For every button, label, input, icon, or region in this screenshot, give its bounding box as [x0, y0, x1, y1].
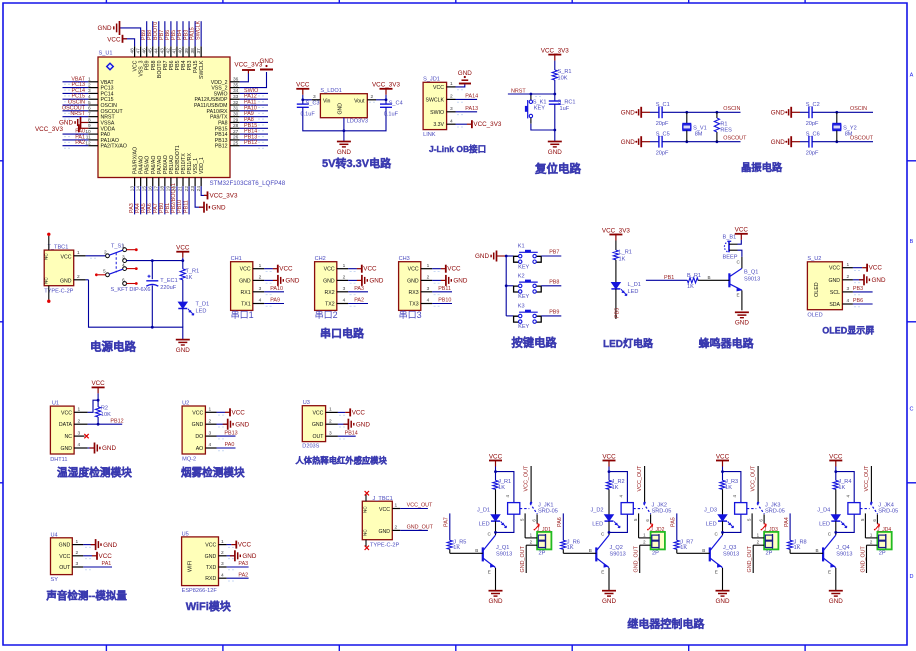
jtbc1 shield stub top — [365, 491, 369, 501]
svg-text:10K: 10K — [558, 75, 568, 81]
svg-text:GND: GND — [98, 25, 112, 32]
svg-text:VCC: VCC — [363, 266, 377, 273]
mcu pin 28 PB15 — [215, 123, 240, 132]
power VCC_3V3 led — [602, 227, 630, 240]
pir pin 2 GND — [326, 418, 345, 427]
svg-text:人体热释电红外感应模块: 人体热释电红外感应模块 — [296, 456, 388, 466]
svg-text:VCC: VCC — [232, 409, 246, 416]
svg-text:U3: U3 — [303, 400, 310, 406]
mcu pin 34 SWIO — [214, 88, 240, 97]
svg-text:PA3: PA3 — [238, 561, 248, 567]
oled pin 1 VCC — [842, 262, 861, 271]
wire vcc to L_R1 — [615, 241, 617, 251]
net PA5 stub ch3 — [671, 513, 677, 540]
wire to key K3 — [506, 315, 513, 317]
wire and net label VBAT — [63, 76, 89, 84]
svg-text:VCC_3V3: VCC_3V3 — [541, 47, 569, 54]
svg-text:GND: GND — [59, 543, 71, 549]
wire to key K1 — [506, 255, 513, 257]
wire oled scl net PB3 — [853, 286, 873, 292]
svg-text:继电器控制电路: 继电器控制电路 — [627, 617, 705, 631]
svg-text:9: 9 — [88, 123, 91, 129]
svg-text:PB6: PB6 — [853, 298, 863, 304]
svg-text:ESP8266-12F: ESP8266-12F — [182, 588, 218, 594]
svg-text:GND: GND — [828, 278, 840, 284]
svg-text:R2: R2 — [101, 405, 108, 411]
wire and net label PB7 — [159, 21, 165, 46]
typec shield stub bottom — [47, 286, 50, 303]
svg-text:J_D2: J_D2 — [590, 508, 603, 514]
jtbc1 pin 2 net GND_OUT — [392, 525, 433, 531]
svg-text:4: 4 — [209, 442, 212, 448]
svg-text:PA1: PA1 — [102, 561, 112, 567]
title oled — [822, 326, 874, 336]
mcu pin 48 VCC — [129, 46, 138, 71]
svg-text:VCC: VCC — [238, 542, 252, 549]
svg-text:电源电路: 电源电路 — [90, 340, 136, 354]
wire r to led ch4 — [835, 489, 837, 514]
transistor J_Q4 S9013 ch4 — [823, 535, 852, 568]
wire emitter to gnd — [737, 290, 742, 310]
svg-text:2: 2 — [76, 550, 79, 556]
svg-text:S9013: S9013 — [744, 277, 760, 283]
svg-text:C: C — [910, 407, 914, 413]
svg-text:20pF: 20pF — [656, 121, 669, 127]
svg-text:VCC: VCC — [408, 267, 419, 273]
wire typec vcc to switch — [86, 256, 106, 258]
svg-text:PA3: PA3 — [354, 286, 364, 292]
wire led to net PB5 — [615, 289, 621, 319]
svg-text:GND: GND — [771, 110, 785, 117]
wire r1 to led — [615, 260, 617, 283]
ground wifi — [227, 550, 257, 561]
mcu pin 2 PC13 — [88, 82, 114, 91]
svg-text:39: 39 — [184, 48, 190, 54]
svg-text:OSCIN: OSCIN — [850, 106, 867, 112]
svg-text:J_JD2: J_JD2 — [650, 527, 664, 533]
wire C3 to bottom rail — [303, 107, 344, 131]
wire and net label PB2/BOOT1 — [171, 183, 177, 214]
svg-text:OSCOUT: OSCOUT — [850, 135, 874, 141]
svg-text:CH1: CH1 — [231, 256, 242, 262]
CH2 pin 3 — [337, 286, 357, 295]
svg-text:B_R1: B_R1 — [687, 273, 701, 279]
resistor T_R1 1K — [180, 261, 199, 281]
mcu pin 10 PA0 — [85, 129, 110, 138]
svg-text:声音检测--模拟量: 声音检测--模拟量 — [45, 589, 127, 602]
svg-text:S_U2: S_U2 — [807, 256, 821, 262]
svg-text:20pF: 20pF — [806, 150, 819, 156]
pir pin 3 OUT — [326, 430, 345, 439]
ground relay ch2 — [602, 591, 616, 605]
wire and net label PC14 — [63, 88, 89, 96]
wire and net label PA15 — [189, 21, 195, 46]
svg-text:VCC: VCC — [59, 554, 70, 560]
relay coil J_JK2 ch2 — [621, 503, 671, 515]
svg-text:GND: GND — [735, 320, 749, 327]
wifi pin 2 GND — [219, 550, 235, 559]
wire and net label PB3 — [183, 21, 189, 46]
svg-text:J_Q3: J_Q3 — [723, 545, 736, 551]
wire and net label PA11 — [240, 100, 268, 108]
transistor J_Q3 S9013 ch3 — [710, 535, 739, 568]
svg-text:SY: SY — [51, 577, 59, 583]
svg-text:1: 1 — [450, 81, 453, 87]
title led circuit — [603, 337, 654, 350]
svg-text:3: 3 — [259, 286, 262, 292]
svg-text:烟雾检测模块: 烟雾检测模块 — [181, 466, 245, 479]
svg-text:2: 2 — [259, 275, 262, 281]
wire to key K2 — [506, 285, 513, 287]
svg-text:3: 3 — [329, 430, 332, 436]
led J_D4 ch4 — [817, 508, 846, 528]
svg-text:5V转3.3V电路: 5V转3.3V电路 — [322, 156, 392, 170]
svg-text:B: B — [910, 239, 914, 245]
svg-text:OUT: OUT — [312, 434, 324, 440]
sensor U2 MQ-2 body — [182, 401, 205, 463]
ground buzzer — [735, 312, 749, 326]
mcu pin 46 PB9 — [141, 46, 150, 70]
wire and net label PA2 — [63, 140, 89, 148]
power VCC dht11 pullup — [91, 380, 105, 407]
svg-text:A: A — [910, 73, 914, 79]
ground CH2 — [348, 275, 384, 286]
wire base to transistor — [698, 275, 730, 280]
svg-text:GND: GND — [103, 542, 117, 549]
svg-text:PB11: PB11 — [183, 200, 189, 213]
ground oled — [853, 274, 886, 285]
wire and net label PA5 — [141, 186, 147, 214]
svg-text:VCC: VCC — [61, 410, 72, 416]
power VCC_3V3 at mcu pin 24 VDD_1 — [201, 186, 238, 199]
wire and net label PC13 — [63, 82, 89, 90]
svg-text:31: 31 — [233, 106, 239, 112]
svg-text:VCC_3V3: VCC_3V3 — [473, 121, 501, 128]
relay common wire VCC_OUT ch3 — [751, 465, 765, 514]
resistor J_R2 1K ch2 — [606, 479, 624, 491]
wire base ch3 — [677, 548, 710, 553]
wire CH1 rx net PA10 — [264, 286, 284, 292]
svg-text:J_JK4: J_JK4 — [878, 503, 894, 509]
mcu pin 15 PA5/AO — [141, 156, 150, 192]
switch nc stubs red — [95, 248, 138, 285]
svg-text:U4: U4 — [51, 532, 58, 538]
power VCC CH2 — [348, 265, 377, 273]
svg-text:VCC_3V3: VCC_3V3 — [35, 126, 63, 133]
wire cap to gnd node — [553, 104, 556, 141]
power VCC sound — [83, 552, 112, 560]
relay coil J_JK3 ch3 — [735, 503, 785, 515]
svg-text:S_LDO1: S_LDO1 — [320, 88, 341, 94]
svg-text:S_U1: S_U1 — [99, 51, 113, 57]
svg-text:S9013: S9013 — [610, 552, 626, 558]
mcu pin 42 PB6 — [166, 46, 175, 70]
svg-text:GND: GND — [239, 278, 251, 284]
svg-text:串口2: 串口2 — [315, 310, 338, 320]
CH3 pin 3 — [421, 286, 441, 295]
svg-text:J_Q1: J_Q1 — [496, 545, 509, 551]
svg-text:S_C2: S_C2 — [806, 102, 820, 108]
svg-text:PB10: PB10 — [438, 298, 451, 304]
svg-text:3.3V: 3.3V — [433, 122, 444, 128]
svg-text:1: 1 — [221, 539, 224, 545]
ground pir — [338, 419, 370, 430]
svg-text:J_Q4: J_Q4 — [836, 545, 849, 551]
svg-text:GND: GND — [602, 598, 616, 605]
svg-text:VCC: VCC — [489, 453, 503, 460]
svg-text:U1: U1 — [52, 401, 59, 407]
mcu pin 22 PB11/RX — [184, 153, 193, 192]
wire and net label PB6 — [165, 21, 171, 46]
svg-text:PB8: PB8 — [549, 280, 559, 286]
power VCC buzzer — [735, 227, 749, 240]
svg-text:NRST: NRST — [70, 111, 85, 117]
svg-text:PB11: PB11 — [438, 286, 451, 292]
mcu pin 11 PA1/AO — [86, 135, 119, 144]
svg-text:S_C1: S_C1 — [656, 102, 670, 108]
svg-text:GND: GND — [489, 598, 503, 605]
power VCC CH1 — [264, 265, 293, 273]
svg-text:T_R1: T_R1 — [186, 268, 200, 274]
svg-text:DO: DO — [195, 434, 203, 440]
wire and net label PB0 — [159, 186, 165, 214]
svg-text:PA6: PA6 — [557, 517, 563, 527]
svg-text:LED: LED — [196, 309, 207, 315]
svg-text:B: B — [589, 548, 592, 553]
svg-text:J_Q2: J_Q2 — [610, 545, 623, 551]
svg-text:GND: GND — [453, 278, 467, 285]
typec pin 2 GND — [74, 274, 86, 280]
svg-text:1: 1 — [427, 263, 430, 269]
svg-text:1K: 1K — [612, 485, 619, 491]
svg-text:38: 38 — [190, 48, 196, 54]
mcu pin 9 VDDA — [88, 123, 115, 132]
jtbc1 shield stub bottom — [365, 540, 369, 550]
wire and net label OSCIN — [63, 100, 89, 108]
ground crystal OSCIN — [621, 107, 650, 118]
jtbc1 pin 1 net VCC_OUT — [392, 503, 433, 509]
wifi pin 1 VCC — [219, 539, 235, 548]
ground relay ch4 — [829, 591, 843, 605]
svg-text:1K: 1K — [186, 275, 193, 281]
svg-text:35: 35 — [233, 82, 239, 88]
svg-text:1K: 1K — [453, 545, 460, 551]
wire CH1 tx net PA9 — [264, 298, 284, 304]
svg-text:J_JD1: J_JD1 — [537, 527, 551, 533]
svg-text:VCC: VCC — [352, 409, 366, 416]
power VCC wifi — [227, 541, 252, 549]
svg-text:VCC_OUT: VCC_OUT — [524, 465, 530, 491]
regulator pin 3 Vin — [312, 94, 321, 102]
svg-text:4: 4 — [122, 263, 125, 269]
svg-text:AO: AO — [196, 446, 204, 452]
svg-text:RES: RES — [720, 128, 732, 134]
svg-text:NRST: NRST — [511, 88, 526, 94]
svg-text:VCC: VCC — [324, 267, 335, 273]
mcu pin 21 PB10/TX — [178, 153, 187, 192]
wire vcc node ch2 — [608, 467, 628, 503]
power VCC_3V3 at mcu pin 9 VDDA — [35, 124, 88, 133]
svg-text:2: 2 — [371, 94, 374, 100]
buzzer B_B1 BEEP — [723, 234, 742, 260]
svg-text:8M: 8M — [845, 132, 853, 138]
wire vcc node ch1 — [494, 467, 514, 503]
svg-text:PB1: PB1 — [664, 275, 674, 281]
svg-text:30: 30 — [233, 111, 239, 117]
connector CH3 body — [399, 256, 422, 320]
svg-text:PA0: PA0 — [225, 442, 235, 448]
net PA7 stub ch1 — [444, 513, 450, 540]
svg-text:OSCIN: OSCIN — [723, 106, 740, 112]
mcu pin 35 VSS_2 — [211, 82, 239, 91]
wire and net label PB13 — [240, 134, 268, 142]
wifi pin 3 TXD — [219, 561, 235, 570]
svg-text:1: 1 — [395, 503, 398, 509]
title relay control — [627, 617, 705, 631]
connector JD4 ch4 — [877, 527, 892, 556]
svg-text:L_D1: L_D1 — [628, 282, 641, 288]
svg-text:6: 6 — [122, 277, 125, 283]
sensor U1 DHT11 body — [50, 401, 74, 463]
wire cap to OSCOUT — [812, 135, 874, 143]
mcu pin 29 PA8 — [218, 117, 240, 126]
wire and net label PB9 — [141, 21, 147, 46]
connector CH2 body — [315, 256, 338, 320]
svg-text:VCC: VCC — [279, 266, 293, 273]
mcu pin 33 PA12/USB/DP — [194, 94, 239, 103]
svg-text:E: E — [737, 293, 740, 298]
svg-text:RXD: RXD — [205, 576, 216, 582]
wire and net label PB12 — [240, 140, 268, 148]
dht11 pin 1 VCC — [74, 407, 88, 413]
svg-text:SWCLK: SWCLK — [426, 97, 445, 103]
svg-text:NC: NC — [363, 506, 368, 513]
svg-text:2P: 2P — [766, 550, 773, 556]
sound pin 1 GND — [72, 539, 91, 548]
resistor R2 10K — [96, 405, 112, 424]
svg-text:KEY: KEY — [518, 324, 529, 330]
ground buttons — [475, 251, 506, 262]
jlink pin 3 SWIO — [447, 106, 464, 115]
CH1 pin 2 — [253, 275, 273, 284]
wire and net label PB5 — [171, 21, 177, 46]
dht11 pin 4 GND — [74, 442, 88, 448]
svg-text:1: 1 — [847, 262, 850, 268]
svg-text:RX3: RX3 — [409, 290, 419, 296]
mcu pin 1 VBAT — [88, 77, 114, 86]
wire jlink pin1 to ground — [456, 84, 465, 87]
svg-text:1: 1 — [329, 407, 332, 413]
svg-text:37: 37 — [196, 48, 202, 54]
svg-text:2: 2 — [104, 250, 107, 256]
svg-text:PA7: PA7 — [444, 517, 450, 527]
CH3 pin 4 — [421, 298, 441, 307]
mcu pin 4 PC15 — [88, 94, 114, 103]
wire and net label PA4 — [135, 186, 141, 214]
svg-text:220uF: 220uF — [160, 285, 176, 291]
power VCC CH3 — [432, 265, 461, 273]
capacitor S_C4 0.1uF — [380, 100, 403, 117]
title sound — [45, 589, 127, 602]
svg-text:VCC: VCC — [716, 453, 730, 460]
wire and net label PB8 — [147, 21, 153, 46]
sensor U4 SY body — [51, 532, 73, 583]
svg-text:GND: GND — [378, 529, 390, 535]
svg-text:L_R1: L_R1 — [619, 250, 632, 256]
svg-text:VCC: VCC — [296, 82, 310, 89]
mcu pin 24 VDD_1 — [196, 157, 205, 191]
svg-text:S9013: S9013 — [496, 552, 512, 558]
svg-text:T_D1: T_D1 — [196, 302, 210, 308]
svg-text:J_JD4: J_JD4 — [877, 527, 891, 533]
svg-text:4: 4 — [847, 298, 850, 304]
svg-text:GND: GND — [771, 139, 785, 146]
svg-text:VCC: VCC — [447, 266, 461, 273]
wire led to collector node ch4 — [828, 514, 854, 536]
svg-text:PB12: PB12 — [244, 140, 257, 146]
svg-text:KEY: KEY — [518, 294, 529, 300]
svg-text:PB12: PB12 — [110, 418, 123, 424]
svg-text:U5: U5 — [182, 531, 189, 537]
resistor J_R1 1K ch1 — [493, 479, 511, 491]
oled pin 2 GND — [842, 274, 861, 283]
svg-text:8M: 8M — [695, 132, 703, 138]
svg-text:VCC: VCC — [205, 543, 216, 549]
CH1 pin 4 — [253, 298, 273, 307]
power VCC_3V3 reset — [541, 47, 569, 60]
svg-text:VCC_OUT: VCC_OUT — [751, 465, 757, 491]
svg-text:1: 1 — [343, 263, 346, 269]
wire emitter gnd ch2 — [601, 568, 609, 591]
svg-text:2: 2 — [395, 525, 398, 531]
wire gnd to cap S_C1 — [650, 111, 659, 113]
mcu pin 27 PB14 — [215, 129, 240, 138]
title power circuit — [90, 340, 136, 354]
mcu pin 43 PB7 — [160, 46, 169, 70]
svg-text:S_C3: S_C3 — [306, 100, 320, 106]
svg-text:VCC_3V3: VCC_3V3 — [210, 192, 238, 199]
svg-text:SRD-05: SRD-05 — [765, 509, 785, 515]
power VCC rail — [176, 245, 190, 261]
regulator pin 2 Vout — [367, 94, 376, 102]
module U5 ESP8266 body — [182, 531, 219, 594]
ground crystal OSCIN — [771, 107, 800, 118]
no connect dht11 pin3 — [84, 434, 88, 438]
ground at mcu pin 8 VSSA — [59, 117, 88, 128]
mq2 pin 1 VCC — [205, 407, 224, 416]
ground crystal OSCOUT — [771, 136, 800, 147]
svg-text:45: 45 — [147, 48, 153, 54]
svg-text:VCC: VCC — [107, 36, 121, 43]
wire resistor to node — [553, 80, 556, 101]
svg-text:VCC: VCC — [312, 410, 323, 416]
power VCC at LDO input — [296, 82, 310, 95]
capacitor S_C2 20pF — [806, 102, 820, 127]
wire Vout to C4 — [376, 95, 387, 104]
svg-text:4: 4 — [343, 298, 346, 304]
svg-text:B: B — [702, 548, 705, 553]
wire vcc node ch3 — [721, 467, 741, 503]
wire and net label PB15 — [240, 123, 268, 131]
svg-text:PA4: PA4 — [784, 517, 790, 527]
svg-text:T_EC1: T_EC1 — [160, 278, 177, 284]
wire r to led ch2 — [608, 489, 610, 514]
svg-text:复位电路: 复位电路 — [534, 162, 581, 176]
svg-text:48: 48 — [129, 48, 135, 54]
wire and net label PA9 — [240, 111, 268, 119]
ground at mcu pin 23 VSS_1 — [195, 186, 226, 212]
power VCC_3V3 at jlink pin4 — [456, 120, 502, 128]
